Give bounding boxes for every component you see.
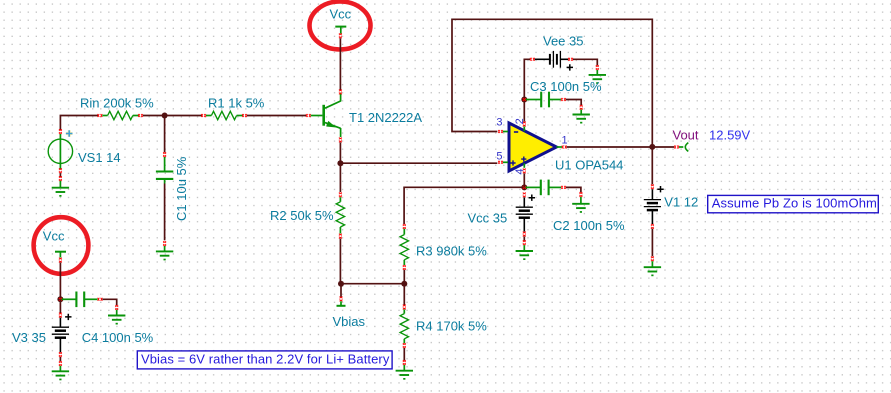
wire R2 to Vbias node <box>339 239 341 284</box>
svg-text:3: 3 <box>496 116 502 128</box>
terminal Vbias <box>337 297 346 306</box>
svg-text:Vcc: Vcc <box>330 6 352 21</box>
annotation ellipse around left Vcc <box>34 217 89 274</box>
wire node to C1 <box>164 116 166 153</box>
node T1 emitter junction <box>337 160 343 166</box>
battery Vcc35 <box>516 193 533 237</box>
pin number 5 <box>496 151 502 163</box>
transistor T1 <box>306 90 342 143</box>
label C1 10u 5% <box>174 156 189 221</box>
svg-text:R4 170k 5%: R4 170k 5% <box>416 319 487 334</box>
wire VS1 to ground <box>59 173 61 177</box>
wire R3 to op-amp pin4 node <box>404 187 523 224</box>
pin number 4 <box>514 168 526 174</box>
pin number 1 <box>562 135 568 147</box>
capacitor C2 <box>526 180 566 196</box>
svg-text:Assume Pb Zo is 100mOhm: Assume Pb Zo is 100mOhm <box>712 196 877 211</box>
wire output node to V1 <box>651 147 653 184</box>
annotation box Vbias note <box>137 351 392 369</box>
wire R3 to node <box>403 270 405 284</box>
node V3-C4 junction <box>57 296 63 302</box>
svg-text:Vbias = 6V rather than 2.2V fo: Vbias = 6V rather than 2.2V for Li+ Batt… <box>141 352 390 367</box>
pin 3 of U1 <box>498 130 508 133</box>
pin 1 of U1 <box>557 145 567 148</box>
power terminal Vcc (top) <box>335 27 346 39</box>
resistor Rin <box>98 111 143 119</box>
svg-text:Vee 35: Vee 35 <box>543 33 584 48</box>
wire C2 to ground <box>566 187 581 192</box>
power terminal Vcc (left) <box>55 252 66 263</box>
wire node to R4 <box>403 284 405 305</box>
label Vbias <box>333 314 366 329</box>
svg-text:R3 980k 5%: R3 980k 5% <box>416 244 487 259</box>
svg-text:C2 100n 5%: C2 100n 5% <box>553 218 625 233</box>
plus mark of Vcc35 <box>529 195 535 201</box>
node input-RC junction <box>162 113 168 119</box>
wire Vcc to V3 node <box>59 263 61 300</box>
resistor R2 <box>336 192 344 238</box>
svg-text:R2 50k 5%: R2 50k 5% <box>270 208 334 223</box>
wire Vbias node horizontal <box>341 283 404 285</box>
svg-text:Vbias: Vbias <box>333 314 366 329</box>
label Vcc (top) <box>330 6 352 21</box>
svg-text:VS1 14: VS1 14 <box>78 150 121 165</box>
wire Vee to ground <box>573 59 597 65</box>
svg-text:C4 100n 5%: C4 100n 5% <box>82 330 154 345</box>
battery V3 <box>52 313 69 357</box>
label T1 2N2222A <box>349 110 422 125</box>
label 12.59V <box>709 128 751 143</box>
node output junction <box>649 144 655 150</box>
label U1 OPA544 <box>555 158 623 173</box>
resistor R3 <box>400 224 408 270</box>
svg-text:C1 10u 5%: C1 10u 5% <box>174 156 189 221</box>
label VS1 14 <box>78 150 121 165</box>
wire C3 to ground <box>566 100 582 106</box>
ground of V1 <box>644 256 661 276</box>
wire feedback loop <box>452 19 652 145</box>
plus mark of VS1 <box>66 130 73 137</box>
label C2 100n 5% <box>553 218 625 233</box>
plus mark of Vee <box>567 64 573 70</box>
annotation ellipse around top Vcc <box>310 2 371 50</box>
label Vee 35 <box>543 33 584 48</box>
wire R1 to T1 base <box>247 115 306 117</box>
svg-text:Vcc 35: Vcc 35 <box>468 210 508 225</box>
pin number 3 <box>496 116 502 128</box>
wire V1 to ground <box>651 229 653 257</box>
label V3 35 <box>12 330 46 345</box>
node R2-R3 junction left <box>338 281 344 287</box>
ground of C3 <box>573 105 590 124</box>
label V1 12 <box>664 195 698 210</box>
node pin4 junction <box>521 184 527 190</box>
ground of R4 <box>396 360 413 380</box>
label R2 50k 5% <box>270 208 334 223</box>
ground of C1 <box>156 241 173 260</box>
node R3-R4 junction right <box>401 281 407 287</box>
wire C1 to ground <box>164 184 166 241</box>
svg-text:1: 1 <box>562 135 568 147</box>
plus mark of V3 <box>65 314 71 320</box>
label Vcc (left) <box>43 229 65 244</box>
ground of C2 <box>572 192 589 213</box>
wire emitter node to op-amp pin 5 <box>340 163 497 192</box>
wire node to V3 <box>59 299 61 313</box>
pin number 2 <box>514 118 526 124</box>
svg-text:5: 5 <box>496 151 502 163</box>
label Rin 200k 5% <box>80 96 154 111</box>
wire VS1 to Rin (input net) <box>60 116 98 130</box>
capacitor C4 <box>62 292 103 308</box>
resistor R1 <box>201 111 247 119</box>
pin 4 of U1 <box>523 163 526 173</box>
svg-text:V1 12: V1 12 <box>664 195 698 210</box>
wire R4 to ground <box>403 348 405 360</box>
wire Vcc to T1 collector <box>339 38 341 90</box>
wire node to Vbias terminal <box>340 284 342 297</box>
capacitor C3 <box>526 92 566 108</box>
ground of Vcc35 <box>516 240 533 260</box>
battery Vee <box>530 51 573 68</box>
svg-text:C3 100n 5%: C3 100n 5% <box>530 79 602 94</box>
terminal Vout <box>674 143 688 152</box>
op-amp plus mark input <box>510 160 515 165</box>
capacitor C1 <box>156 152 173 183</box>
battery V1 <box>644 184 661 228</box>
wire Vcc35 to ground <box>523 236 525 240</box>
wire pin2 rail <box>524 59 530 121</box>
svg-text:T1 2N2222A: T1 2N2222A <box>349 110 422 125</box>
svg-text:R1 1k 5%: R1 1k 5% <box>208 96 265 111</box>
ground of VS1 <box>52 176 69 196</box>
annotation box Pb Zo note <box>708 195 879 212</box>
label R1 1k 5% <box>208 96 265 111</box>
ground of Vee <box>589 65 606 84</box>
wire op-amp output to Vout <box>567 146 675 148</box>
svg-text:Rin 200k 5%: Rin 200k 5% <box>80 96 154 111</box>
wire T1 emitter to node <box>339 142 341 162</box>
wire pin4 to node <box>523 173 525 187</box>
label C4 100n 5% <box>82 330 154 345</box>
node C3 junction <box>521 97 527 103</box>
svg-text:V3 35: V3 35 <box>12 330 46 345</box>
label Vcc 35 <box>468 210 508 225</box>
svg-text:12.59V: 12.59V <box>709 128 751 143</box>
svg-text:Vcc: Vcc <box>43 229 65 244</box>
op-amp minus mark <box>514 131 518 133</box>
resistor R4 <box>400 305 408 348</box>
pin 5 of U1 <box>498 161 508 164</box>
label R4 170k 5% <box>416 319 487 334</box>
wire Rin to R1 through node <box>143 115 202 117</box>
ground of V3 <box>52 361 69 380</box>
pin 2 of U1 <box>523 122 526 132</box>
op-amp U1 body <box>509 123 557 171</box>
svg-text:U1 OPA544: U1 OPA544 <box>555 158 623 173</box>
ground of C4 <box>108 305 125 324</box>
voltage source VS1 <box>48 129 72 173</box>
label Vout <box>673 128 699 143</box>
label C3 100n 5% <box>530 79 602 94</box>
wire V3 to ground <box>59 357 61 361</box>
plus mark of V1 <box>657 186 663 192</box>
svg-text:Vout: Vout <box>673 128 699 143</box>
label R3 980k 5% <box>416 244 487 259</box>
op-amp plus mark supply <box>521 157 526 162</box>
wire C4 to ground <box>102 299 116 305</box>
